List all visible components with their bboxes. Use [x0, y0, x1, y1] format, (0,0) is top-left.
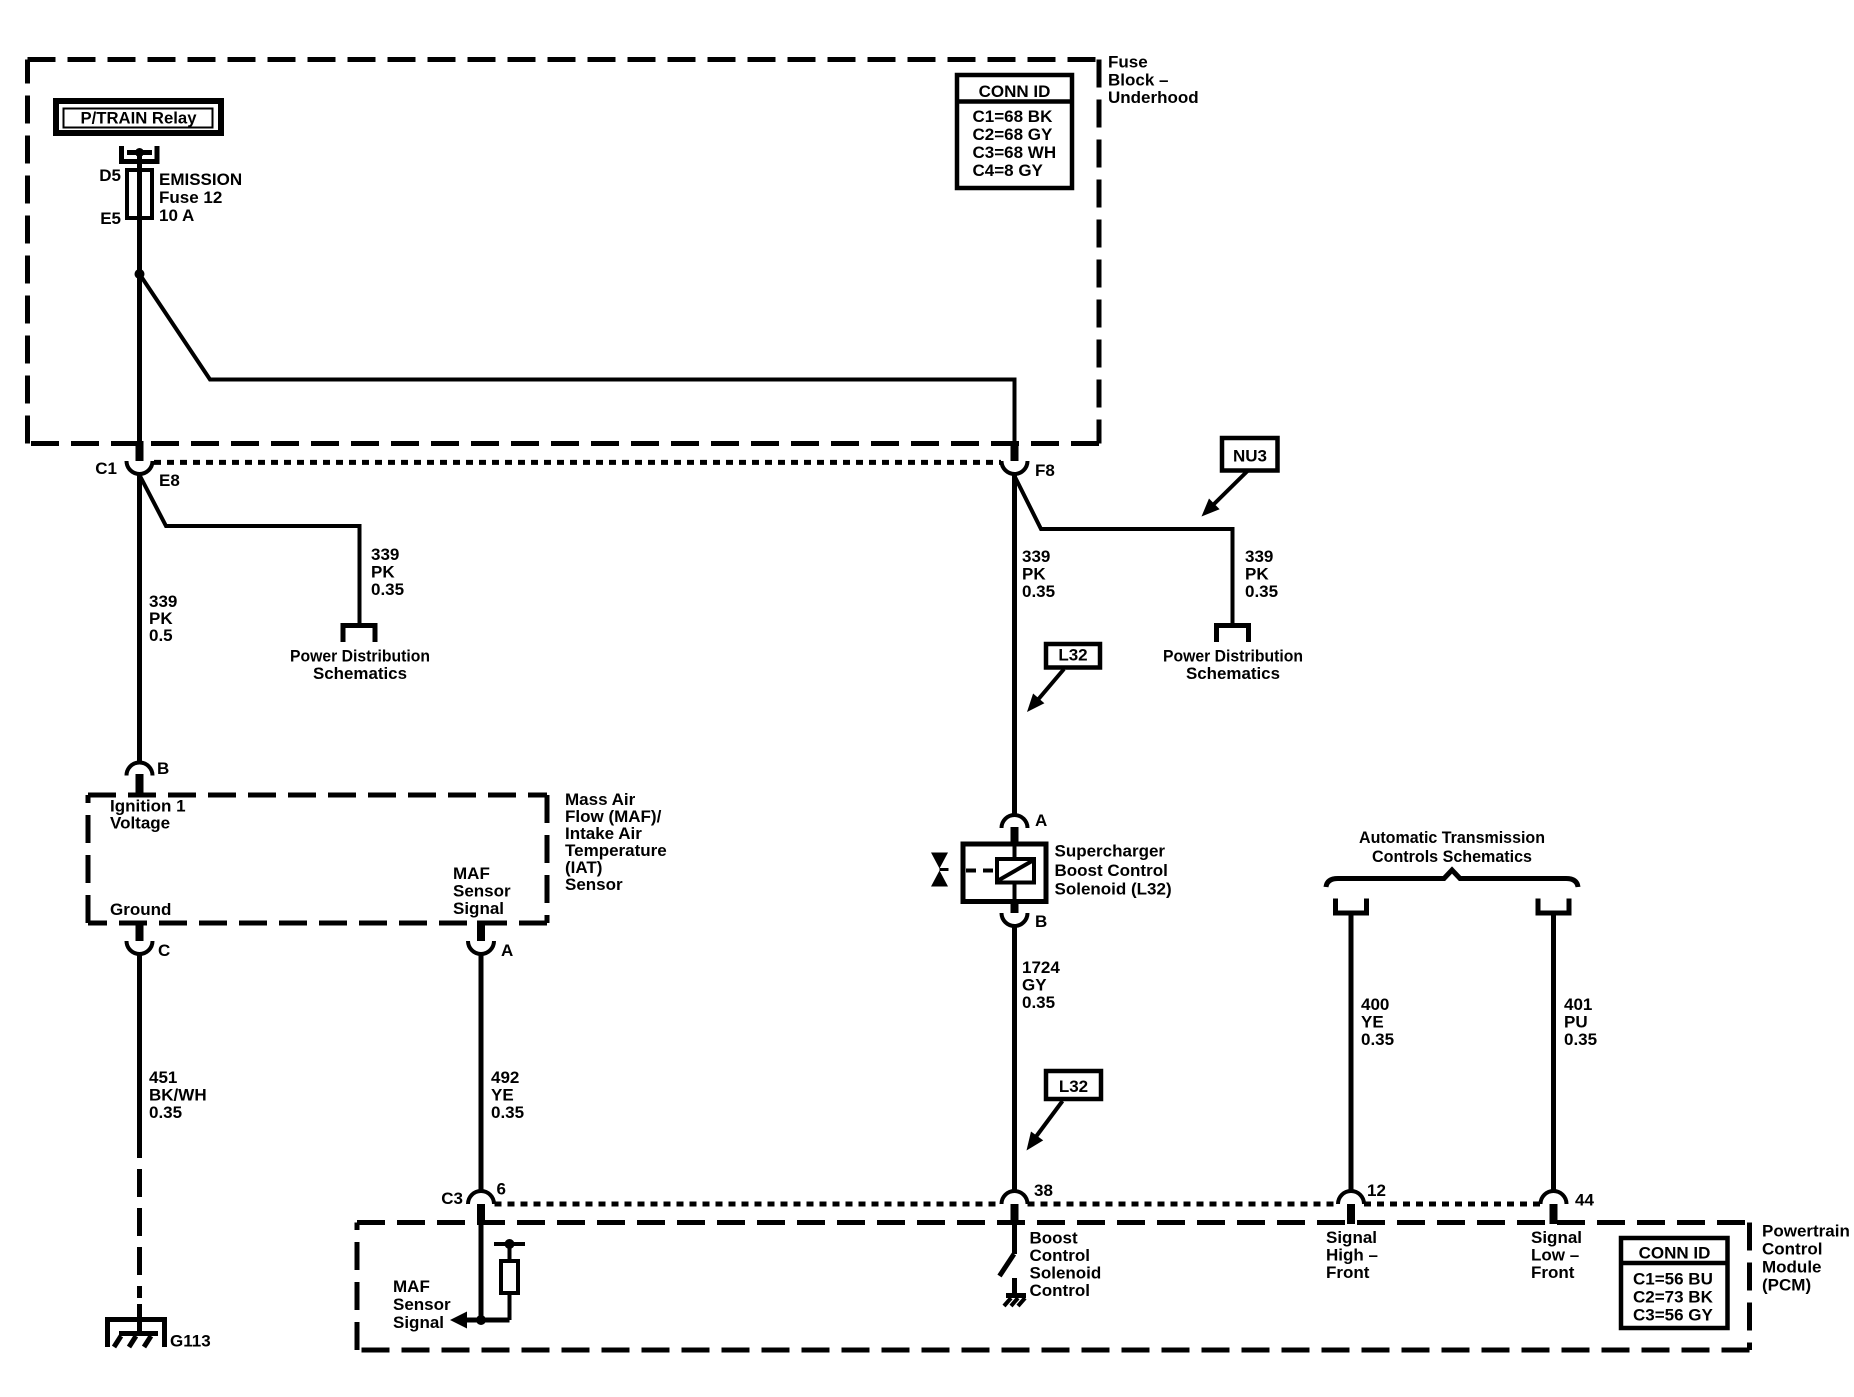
svg-text:0.5: 0.5: [149, 626, 173, 645]
svg-text:E8: E8: [159, 471, 180, 490]
svg-text:A: A: [501, 941, 513, 960]
svg-text:Control: Control: [1030, 1281, 1090, 1300]
svg-text:38: 38: [1034, 1181, 1053, 1200]
svg-text:0.35: 0.35: [1564, 1030, 1597, 1049]
svg-text:E5: E5: [100, 209, 121, 228]
svg-text:C1=56 BU: C1=56 BU: [1633, 1270, 1713, 1289]
svg-text:Module: Module: [1762, 1258, 1822, 1277]
svg-text:High –: High –: [1326, 1246, 1378, 1265]
svg-text:Control: Control: [1030, 1246, 1090, 1265]
svg-text:0.35: 0.35: [1361, 1030, 1394, 1049]
svg-text:Front: Front: [1531, 1263, 1575, 1282]
svg-text:Solenoid (L32): Solenoid (L32): [1055, 880, 1172, 899]
svg-text:L32: L32: [1058, 646, 1087, 665]
svg-text:451: 451: [149, 1068, 177, 1087]
svg-text:0.35: 0.35: [491, 1103, 524, 1122]
svg-text:C2=73 BK: C2=73 BK: [1633, 1288, 1714, 1307]
svg-text:Voltage: Voltage: [110, 814, 170, 833]
svg-text:L32: L32: [1059, 1077, 1088, 1096]
svg-text:C2=68 GY: C2=68 GY: [973, 125, 1054, 144]
svg-text:EMISSION: EMISSION: [159, 170, 242, 189]
svg-text:Signal: Signal: [1326, 1228, 1377, 1247]
svg-text:Power Distribution: Power Distribution: [290, 647, 430, 666]
svg-text:PU: PU: [1564, 1013, 1588, 1032]
svg-text:B: B: [157, 759, 169, 778]
svg-text:10 A: 10 A: [159, 206, 194, 225]
svg-text:6: 6: [497, 1180, 506, 1199]
svg-text:Fuse: Fuse: [1108, 53, 1148, 72]
svg-text:CONN ID: CONN ID: [979, 82, 1051, 101]
svg-text:P/TRAIN Relay: P/TRAIN Relay: [81, 109, 198, 128]
svg-text:Low –: Low –: [1531, 1246, 1579, 1265]
svg-text:PK: PK: [371, 563, 395, 582]
svg-text:B: B: [1035, 912, 1047, 931]
svg-text:Boost Control: Boost Control: [1055, 861, 1168, 880]
svg-text:Supercharger: Supercharger: [1055, 842, 1166, 861]
svg-text:12: 12: [1367, 1181, 1386, 1200]
svg-text:0.35: 0.35: [371, 580, 404, 599]
svg-text:C3: C3: [441, 1189, 463, 1208]
svg-text:Powertrain: Powertrain: [1762, 1222, 1850, 1241]
svg-text:0.35: 0.35: [149, 1103, 182, 1122]
svg-text:339: 339: [1245, 547, 1273, 566]
svg-text:492: 492: [491, 1068, 519, 1087]
svg-text:NU3: NU3: [1233, 447, 1267, 466]
svg-text:0.35: 0.35: [1022, 582, 1055, 601]
svg-text:0.35: 0.35: [1245, 582, 1278, 601]
svg-text:C: C: [158, 941, 170, 960]
svg-text:C1: C1: [95, 459, 117, 478]
svg-text:MAF: MAF: [393, 1277, 430, 1296]
svg-text:339: 339: [371, 545, 399, 564]
svg-text:BK/WH: BK/WH: [149, 1086, 207, 1105]
svg-text:Boost: Boost: [1030, 1229, 1079, 1248]
svg-text:Sensor: Sensor: [393, 1295, 451, 1314]
svg-text:Power Distribution: Power Distribution: [1163, 647, 1303, 666]
svg-text:Sensor: Sensor: [565, 875, 623, 894]
svg-text:F8: F8: [1035, 461, 1055, 480]
svg-text:Fuse 12: Fuse 12: [159, 188, 222, 207]
svg-text:C3=68 WH: C3=68 WH: [973, 143, 1057, 162]
svg-text:1724: 1724: [1022, 958, 1060, 977]
svg-text:Signal: Signal: [1531, 1228, 1582, 1247]
svg-text:CONN ID: CONN ID: [1639, 1244, 1711, 1263]
svg-text:D5: D5: [99, 166, 121, 185]
svg-text:C1=68 BK: C1=68 BK: [973, 107, 1054, 126]
svg-text:Controls Schematics: Controls Schematics: [1372, 847, 1532, 866]
svg-text:Block –: Block –: [1108, 71, 1168, 90]
svg-text:C3=56 GY: C3=56 GY: [1633, 1306, 1714, 1325]
svg-text:MAF: MAF: [453, 864, 490, 883]
svg-text:Control: Control: [1762, 1240, 1822, 1259]
svg-text:Schematics: Schematics: [313, 664, 407, 683]
svg-text:GY: GY: [1022, 976, 1047, 995]
svg-text:Signal: Signal: [453, 899, 504, 918]
svg-text:401: 401: [1564, 995, 1592, 1014]
svg-text:G113: G113: [170, 1332, 211, 1351]
svg-text:Automatic Transmission: Automatic Transmission: [1359, 828, 1545, 847]
svg-text:Sensor: Sensor: [453, 882, 511, 901]
svg-text:Front: Front: [1326, 1263, 1370, 1282]
svg-text:PK: PK: [1022, 565, 1046, 584]
svg-text:YE: YE: [1361, 1013, 1384, 1032]
svg-text:C4=8 GY: C4=8 GY: [973, 161, 1044, 180]
svg-text:Solenoid: Solenoid: [1030, 1264, 1102, 1283]
svg-text:0.35: 0.35: [1022, 993, 1055, 1012]
svg-text:A: A: [1035, 811, 1047, 830]
svg-text:Signal: Signal: [393, 1313, 444, 1332]
svg-text:Ground: Ground: [110, 900, 171, 919]
svg-text:YE: YE: [491, 1086, 514, 1105]
svg-text:Schematics: Schematics: [1186, 664, 1280, 683]
svg-text:(PCM): (PCM): [1762, 1276, 1811, 1295]
svg-text:PK: PK: [1245, 565, 1269, 584]
svg-text:Underhood: Underhood: [1108, 88, 1199, 107]
svg-text:44: 44: [1575, 1191, 1594, 1210]
svg-text:339: 339: [1022, 547, 1050, 566]
svg-text:400: 400: [1361, 995, 1389, 1014]
